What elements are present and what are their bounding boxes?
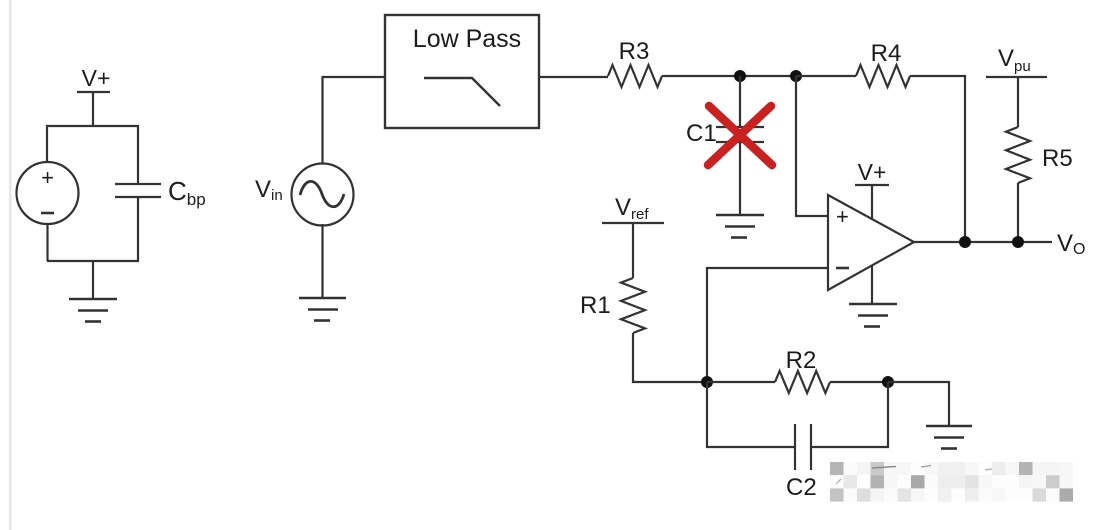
node C junction dot — [701, 376, 713, 388]
wire source to bottom rail — [46, 224, 48, 261]
blurred watermark mosaic — [830, 462, 1073, 502]
wire node C to C2 — [707, 382, 795, 447]
ground (op-amp) — [849, 303, 897, 306]
resistor R3 — [608, 65, 662, 87]
capacitor Cbp plates — [115, 183, 161, 185]
resistor R4 — [856, 65, 910, 87]
wire V+ to op-amp — [871, 185, 873, 220]
ground (Vin source) — [299, 297, 346, 300]
voltage source VS1 — [17, 162, 79, 224]
wire C1 to ground — [739, 142, 741, 215]
wire C2 to node D — [811, 382, 888, 447]
svg-text:R3: R3 — [619, 38, 650, 65]
svg-text:C2: C2 — [786, 474, 817, 501]
wire top rail of bypass loop — [47, 126, 138, 184]
wire Vin to Low Pass input — [323, 77, 386, 164]
node D junction dot — [882, 376, 894, 388]
wire node B to op-amp + input — [796, 76, 828, 216]
wire node C to R2 — [707, 381, 775, 383]
wire node A to node B — [740, 75, 796, 77]
node A junction dot — [734, 70, 746, 82]
svg-text:C1: C1 — [686, 120, 717, 147]
node B junction dot — [790, 70, 802, 82]
svg-text:R5: R5 — [1042, 145, 1073, 172]
svg-text:Vin: Vin — [255, 176, 283, 204]
svg-text:R2: R2 — [786, 347, 817, 374]
wire node B to R4 — [796, 75, 856, 77]
supply V+ bar — [77, 91, 110, 93]
wire Vref to R1 — [632, 223, 634, 278]
svg-text:V+: V+ — [858, 159, 887, 185]
node output-R4 junction dot — [959, 236, 971, 248]
wire V+ stem — [92, 92, 94, 126]
supply Vpu bar — [986, 76, 1047, 78]
wire R2 to node D — [830, 381, 888, 383]
resistor R5 — [1006, 127, 1030, 183]
wire Vin to ground — [321, 224, 323, 298]
svg-text:Cbp: Cbp — [168, 176, 206, 209]
wire op-amp to ground — [871, 266, 873, 304]
supply V+ bar (op-amp) — [855, 184, 889, 186]
op-amp U2 — [828, 195, 914, 290]
svg-text:R1: R1 — [580, 292, 611, 319]
source Vin — [292, 164, 354, 226]
capacitor C2 plates — [794, 424, 796, 470]
svg-text:+: + — [41, 165, 54, 190]
wire R4 to output node — [910, 76, 965, 242]
low pass response symbol — [424, 78, 500, 106]
svg-text:+: + — [836, 204, 849, 229]
svg-text:Vpu: Vpu — [998, 45, 1031, 75]
wire node D to ground — [888, 382, 949, 426]
svg-text:R4: R4 — [871, 40, 902, 67]
wire R5 to output node — [1017, 183, 1019, 242]
svg-text:Low Pass: Low Pass — [413, 25, 521, 53]
resistor R1 — [621, 278, 645, 333]
wire Low Pass output to R3 — [539, 76, 608, 78]
red X deletion mark over C1 — [708, 106, 772, 165]
block U1 Low Pass filter box — [385, 15, 539, 128]
ground (C1) — [716, 214, 764, 217]
wire Vpu to R5 — [1017, 77, 1019, 127]
faint scan edge at left border — [9, 0, 12, 530]
resistor R2 — [775, 371, 830, 393]
supply Vref bar — [602, 222, 664, 224]
svg-text:VO: VO — [1057, 230, 1085, 258]
node output-R5 junction dot — [1012, 236, 1024, 248]
wire R3 to node A — [662, 75, 740, 77]
ground (bypass section) — [92, 261, 94, 299]
svg-text:Vref: Vref — [615, 194, 649, 223]
wire node A to C1 — [739, 76, 741, 127]
wire op-amp output to Vo — [914, 241, 1052, 243]
ground (R2 network) — [926, 425, 972, 428]
capacitor C1 plates — [716, 126, 764, 128]
svg-text:V+: V+ — [82, 65, 111, 91]
wire R1 to node C — [633, 333, 707, 382]
wire bottom rail of bypass loop — [47, 197, 138, 261]
wire op-amp - input to node C — [707, 268, 828, 382]
